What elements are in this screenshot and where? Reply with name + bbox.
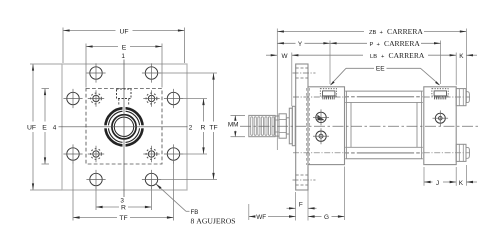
svg-text:R: R	[201, 124, 206, 131]
svg-text:TF: TF	[119, 215, 127, 222]
svg-text:WF: WF	[256, 214, 266, 221]
cushion screw circle rear head	[433, 110, 449, 126]
dimension LB + CARRERA	[292, 51, 456, 60]
dimension TF (right vertical)	[158, 73, 218, 180]
tie rod centerlines through front head	[293, 97, 346, 153]
dimension E (left vertical)	[42, 89, 50, 165]
svg-text:1: 1	[121, 53, 125, 60]
svg-text:EE: EE	[376, 66, 385, 73]
svg-text:UF: UF	[27, 124, 36, 131]
rod neck at gland	[286, 118, 289, 134]
center boss concentric circles	[104, 107, 144, 147]
dimension F	[287, 167, 317, 221]
rod collar nut	[279, 114, 286, 138]
gland retainer plates	[289, 106, 295, 145]
svg-text:FB: FB	[191, 209, 199, 216]
mounting hole FB8	[142, 170, 161, 189]
dimension K (top)	[459, 53, 477, 60]
mounting hole FB6	[164, 144, 183, 163]
dimension G	[308, 167, 345, 222]
check valve circle front head	[313, 128, 329, 144]
cylinder body profile (dashed square E x E)	[86, 89, 162, 165]
rear head block	[424, 87, 456, 165]
dimension J	[424, 167, 456, 187]
tie rod end T3	[88, 146, 104, 162]
extension lines top dims	[277, 29, 466, 151]
dimension WF	[249, 204, 296, 221]
mounting hole FB4	[164, 89, 183, 108]
front head block	[308, 87, 345, 165]
tie rod nut rear bottom	[456, 144, 469, 161]
tie rod end T2	[143, 90, 159, 106]
svg-text:3: 3	[120, 198, 124, 205]
front view vertical centerline	[123, 60, 125, 198]
mounting hole FB3	[63, 89, 82, 108]
svg-text:W: W	[281, 53, 288, 60]
tie rod end T1	[88, 90, 104, 106]
svg-text:F: F	[299, 201, 303, 208]
mounting flange side view	[296, 64, 308, 190]
tie rod nut rear top	[456, 89, 469, 106]
side view horizontal centerline	[240, 125, 479, 127]
dimension Y	[277, 41, 330, 48]
mounting hole FB1	[86, 63, 105, 82]
svg-text:R: R	[121, 205, 126, 212]
piston rod threaded end MM	[249, 115, 275, 136]
dimension ZB + CARRERA	[277, 27, 466, 36]
front view horizontal centerline	[59, 126, 188, 128]
dimension P + CARRERA	[330, 39, 441, 48]
svg-text:UF: UF	[119, 28, 128, 35]
mounting hole FB5	[63, 144, 82, 163]
cylinder tube	[345, 91, 423, 159]
svg-text:ZB: ZB	[369, 30, 377, 36]
port EE rear (threaded, hidden)	[432, 89, 448, 100]
svg-text:4: 4	[53, 124, 57, 131]
cushion valve circle front head	[313, 109, 329, 125]
port EE front (threaded, hidden)	[320, 89, 336, 100]
rod wrench flats section	[275, 116, 279, 136]
tie rod end T4	[143, 146, 159, 162]
svg-text:K: K	[459, 53, 464, 60]
svg-text:LB: LB	[370, 54, 377, 60]
port position label 4	[53, 124, 57, 131]
front head hidden gland bolt lines	[307, 88, 310, 165]
flange hidden hole lines	[293, 68, 316, 185]
dimension R (bottom)	[96, 187, 152, 212]
port boss square (hidden, dotted) on flange face	[117, 89, 132, 105]
svg-text:G: G	[324, 214, 329, 221]
port position label 3	[120, 198, 124, 205]
leader EE to both ports	[330, 66, 439, 86]
dimension UF (left vertical)	[27, 64, 62, 190]
dimension W	[266, 53, 288, 60]
dimension TF (bottom)	[73, 161, 174, 223]
leader FB / 8 AGUJEROS	[156, 184, 236, 226]
svg-text:2: 2	[189, 124, 193, 131]
mounting hole FB2	[142, 63, 161, 82]
tie rod centerlines through rear head	[424, 97, 470, 153]
port position label 1	[121, 53, 125, 60]
svg-text:MM: MM	[228, 122, 239, 129]
svg-text:E: E	[42, 124, 47, 131]
dimension K (bottom)	[459, 165, 477, 187]
flange plate front view outline	[62, 64, 187, 190]
port position label 2	[189, 124, 193, 131]
svg-text:CARRERA: CARRERA	[387, 27, 423, 36]
dimension MM (rod diameter)	[228, 115, 245, 136]
svg-text:P: P	[370, 42, 374, 48]
dimension R (right vertical)	[180, 99, 207, 155]
dimension UF (top)	[63, 28, 185, 64]
svg-text:CARRERA: CARRERA	[384, 39, 420, 48]
svg-text:CARRERA: CARRERA	[389, 51, 425, 60]
mounting hole FB7	[86, 170, 105, 189]
dimension E (top)	[86, 44, 162, 88]
svg-text:E: E	[122, 44, 127, 51]
svg-text:8 AGUJEROS: 8 AGUJEROS	[191, 217, 236, 226]
svg-text:K: K	[459, 180, 464, 187]
svg-text:Y: Y	[298, 41, 303, 48]
svg-text:J: J	[436, 180, 439, 187]
svg-text:TF: TF	[209, 124, 217, 131]
